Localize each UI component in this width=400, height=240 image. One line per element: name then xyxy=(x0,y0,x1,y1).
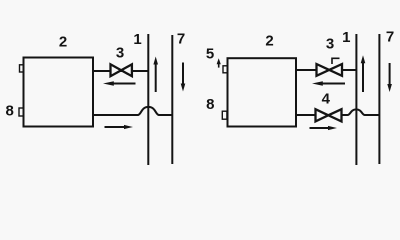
svg-text:3: 3 xyxy=(326,36,334,53)
svg-text:2: 2 xyxy=(59,34,67,51)
svg-text:8: 8 xyxy=(206,96,214,113)
svg-text:1: 1 xyxy=(133,31,141,48)
svg-text:7: 7 xyxy=(177,31,185,48)
svg-text:3: 3 xyxy=(116,45,124,62)
svg-text:2: 2 xyxy=(265,33,273,50)
svg-text:1: 1 xyxy=(342,29,350,46)
svg-text:7: 7 xyxy=(386,29,394,46)
svg-text:4: 4 xyxy=(322,91,331,108)
svg-text:5: 5 xyxy=(206,46,214,63)
svg-text:8: 8 xyxy=(6,103,14,120)
